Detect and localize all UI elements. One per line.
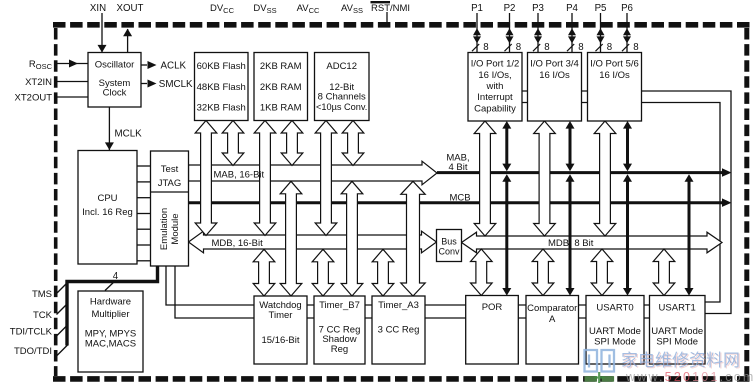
flash memory box bbox=[195, 53, 249, 121]
svg-text:Emulation: Emulation bbox=[159, 208, 170, 250]
svg-text:Module: Module bbox=[170, 213, 181, 244]
svg-text:Comparator: Comparator bbox=[527, 303, 577, 314]
svg-text:MCLK: MCLK bbox=[115, 129, 143, 140]
CPU box bbox=[78, 151, 137, 265]
wire port-to-USART1 outer run bbox=[522, 91, 731, 314]
wire TMS tick bbox=[57, 282, 69, 294]
svg-text:JTAG: JTAG bbox=[158, 178, 182, 189]
svg-text:I/O Port 1/2: I/O Port 1/2 bbox=[471, 59, 520, 70]
svg-text:MAB, 16-Bit: MAB, 16-Bit bbox=[214, 169, 265, 180]
wire bus arrow RAM-MDB bbox=[254, 121, 276, 236]
signal ACLK bbox=[141, 64, 147, 66]
svg-text:www.520101.com: www.520101.com bbox=[625, 370, 754, 384]
I/O port 3/4 box bbox=[528, 53, 582, 122]
RAM box bbox=[254, 53, 308, 121]
svg-text:8: 8 bbox=[483, 42, 488, 53]
dashed chip border top bbox=[53, 22, 751, 28]
svg-text:2KB RAM: 2KB RAM bbox=[260, 61, 302, 72]
svg-text:MDB, 16-Bit: MDB, 16-Bit bbox=[212, 238, 264, 249]
svg-text:MAC,MACS: MAC,MACS bbox=[85, 339, 136, 350]
svg-text:8: 8 bbox=[516, 42, 521, 53]
svg-text:XT2OUT: XT2OUT bbox=[15, 93, 53, 104]
svg-text:Timer_B7: Timer_B7 bbox=[319, 300, 360, 311]
wire bus arrow TimerB7-MDB bbox=[312, 249, 334, 296]
svg-text:XOUT: XOUT bbox=[117, 3, 144, 14]
svg-text:P2: P2 bbox=[504, 3, 516, 14]
wire TCK tick bbox=[57, 303, 69, 315]
wire bus arrow flash-MAB bbox=[222, 121, 244, 166]
svg-text:POR: POR bbox=[482, 302, 503, 313]
svg-text:Hardware: Hardware bbox=[90, 297, 131, 308]
svg-text:ADC12: ADC12 bbox=[326, 61, 357, 72]
bus MAB 16-bit bbox=[189, 161, 438, 185]
wire TDI/TCLK tick bbox=[57, 325, 69, 337]
svg-text:16 I/Os,: 16 I/Os, bbox=[478, 70, 511, 81]
svg-text:Capability: Capability bbox=[474, 103, 516, 114]
wire port3/4-Comparator black line bbox=[566, 121, 575, 129]
svg-text:<10µs Conv.: <10µs Conv. bbox=[316, 102, 367, 112]
wire bus arrow POR-MDB bbox=[471, 249, 493, 296]
svg-text:ACLK: ACLK bbox=[161, 61, 187, 72]
wire CPU to Test/JTAG stubs bbox=[137, 165, 151, 167]
svg-text:60KB Flash: 60KB Flash bbox=[197, 61, 246, 72]
svg-text:P5: P5 bbox=[595, 3, 607, 14]
Timer_A3 box bbox=[372, 296, 425, 364]
svg-text:XT2IN: XT2IN bbox=[25, 77, 52, 88]
svg-text:MCB: MCB bbox=[449, 193, 470, 204]
wire bus arrow TimerA3-MAB bbox=[401, 181, 425, 296]
svg-text:P3: P3 bbox=[532, 3, 544, 14]
svg-text:Reg: Reg bbox=[331, 344, 348, 355]
bus MCB line bbox=[189, 201, 724, 204]
svg-text:Multiplier: Multiplier bbox=[91, 309, 129, 320]
hardware multiplier box bbox=[78, 291, 143, 372]
pin XOUT bbox=[127, 29, 129, 53]
svg-text:TDI/TCLK: TDI/TCLK bbox=[10, 327, 53, 338]
svg-text:4: 4 bbox=[113, 271, 119, 282]
svg-text:Interrupt: Interrupt bbox=[477, 92, 513, 103]
wire bus arrow TimerA3-MDB bbox=[372, 249, 394, 296]
svg-text:CPU: CPU bbox=[97, 193, 117, 204]
svg-text:16 I/Os: 16 I/Os bbox=[539, 70, 570, 81]
wire MAB-USART1 black line bbox=[685, 174, 694, 182]
svg-text:2KB RAM: 2KB RAM bbox=[260, 82, 302, 93]
svg-text:8: 8 bbox=[578, 42, 583, 53]
watermark green plus bbox=[594, 372, 605, 383]
wire bus arrow ADC-MAB bbox=[342, 121, 364, 166]
svg-text:TDO/TDI: TDO/TDI bbox=[14, 346, 52, 357]
svg-text:UART Mode: UART Mode bbox=[589, 326, 641, 337]
svg-text:A: A bbox=[549, 314, 556, 325]
svg-text:TMS: TMS bbox=[32, 289, 52, 300]
svg-text:Conv: Conv bbox=[438, 247, 460, 257]
USART1 box bbox=[650, 296, 706, 365]
svg-text:P6: P6 bbox=[621, 3, 633, 14]
svg-text:UART Mode: UART Mode bbox=[651, 326, 703, 337]
svg-text:Timer: Timer bbox=[269, 310, 293, 321]
svg-text:I/O Port 5/6: I/O Port 5/6 bbox=[590, 59, 639, 70]
bus MDB 16-bit bbox=[189, 231, 437, 253]
svg-text:Test: Test bbox=[161, 164, 179, 175]
wire bus arrow port56-MDB bbox=[594, 121, 616, 236]
dashed chip border bottom bbox=[53, 376, 751, 382]
svg-text:Incl. 16 Reg: Incl. 16 Reg bbox=[82, 207, 133, 218]
wire bus arrow WDT-MDB bbox=[253, 249, 275, 296]
I/O port 1/2 box bbox=[468, 53, 522, 122]
svg-text:RST/NMI: RST/NMI bbox=[371, 3, 410, 14]
signal SMCLK bbox=[141, 83, 147, 85]
dashed chip border right bbox=[744, 28, 749, 376]
pin RST/NMI bbox=[386, 12, 388, 24]
svg-text:15/16-Bit: 15/16-Bit bbox=[261, 335, 299, 346]
USART0 box bbox=[586, 296, 644, 365]
svg-text:8: 8 bbox=[633, 42, 638, 53]
signal MCLK bbox=[108, 107, 110, 150]
svg-text:P4: P4 bbox=[566, 3, 578, 14]
watermark green dashes bbox=[585, 376, 598, 382]
svg-text:48KB Flash: 48KB Flash bbox=[197, 82, 246, 93]
svg-text:8: 8 bbox=[607, 42, 612, 53]
Timer_B7 box bbox=[314, 296, 365, 364]
svg-text:Timer_A3: Timer_A3 bbox=[378, 300, 419, 311]
watchdog timer box bbox=[254, 296, 307, 364]
wire bus arrow USART0-MDB bbox=[591, 249, 613, 296]
svg-text:Bus: Bus bbox=[441, 237, 457, 247]
svg-text:8: 8 bbox=[544, 42, 549, 53]
svg-text:with: with bbox=[486, 81, 504, 92]
wire bus arrow TimerB7-MAB bbox=[341, 181, 363, 296]
svg-text:1KB RAM: 1KB RAM bbox=[260, 103, 302, 114]
bus converter box bbox=[437, 230, 462, 262]
bus MDB 8-bit bbox=[462, 232, 723, 253]
label bus width 4 bbox=[105, 281, 116, 291]
wire bus arrow comparator-MDB bbox=[532, 249, 554, 296]
svg-text:P1: P1 bbox=[471, 3, 483, 14]
dashed chip border left bbox=[54, 28, 58, 376]
watermark book icon bbox=[585, 350, 615, 372]
svg-text:USART0: USART0 bbox=[596, 303, 633, 314]
svg-text:SPI Mode: SPI Mode bbox=[656, 337, 698, 348]
svg-text:USART1: USART1 bbox=[659, 303, 696, 314]
svg-text:I/O Port 3/4: I/O Port 3/4 bbox=[530, 59, 579, 70]
Test/JTAG box bbox=[151, 151, 189, 266]
svg-text:Oscillator: Oscillator bbox=[95, 60, 135, 71]
svg-text:4 Bit: 4 Bit bbox=[448, 162, 467, 173]
wire bus arrow flash-MDB bbox=[195, 121, 217, 236]
svg-text:家电维修资料网: 家电维修资料网 bbox=[621, 351, 740, 370]
pin XIN bbox=[101, 13, 103, 53]
svg-text:TCK: TCK bbox=[33, 310, 53, 321]
svg-text:Clock: Clock bbox=[103, 88, 127, 99]
svg-text:3 CC Reg: 3 CC Reg bbox=[378, 325, 420, 336]
bus MAB 4-bit line bbox=[437, 171, 723, 174]
wire bus arrow port34-MDB bbox=[534, 121, 556, 236]
svg-text:MDB, 8 Bit: MDB, 8 Bit bbox=[548, 238, 594, 249]
I/O port 5/6 box bbox=[588, 53, 642, 122]
svg-text:32KB Flash: 32KB Flash bbox=[197, 103, 246, 114]
wire TDO/TDI tick bbox=[57, 345, 69, 357]
POR box bbox=[466, 296, 519, 365]
wire bus arrow USART1-MDB bbox=[653, 249, 675, 296]
svg-text:SMCLK: SMCLK bbox=[159, 79, 193, 90]
wire port5/6-USART0 black line bbox=[623, 121, 632, 129]
wire bus arrow ADC-MDB bbox=[315, 121, 337, 236]
wire bus arrow RAM-MAB bbox=[281, 121, 303, 166]
wire bus arrow port12-MDB bbox=[474, 121, 496, 236]
oscillator system clock box bbox=[88, 53, 141, 108]
wire bus arrow WDT-MAB bbox=[280, 181, 302, 296]
svg-text:XIN: XIN bbox=[90, 3, 106, 14]
wire port1/2-POR black line bbox=[502, 121, 511, 129]
svg-text:16 I/Os: 16 I/Os bbox=[599, 70, 630, 81]
wire JTAG thick bus bbox=[67, 266, 158, 346]
wire port-to-USART1 inner run bbox=[522, 103, 720, 303]
wire emulation-to-peripherals upper run bbox=[166, 266, 677, 305]
svg-text:SPI Mode: SPI Mode bbox=[594, 337, 636, 348]
ADC12 box bbox=[315, 53, 370, 121]
comparator A box bbox=[526, 296, 579, 365]
wire emulation-to-peripherals lower run bbox=[175, 266, 677, 318]
